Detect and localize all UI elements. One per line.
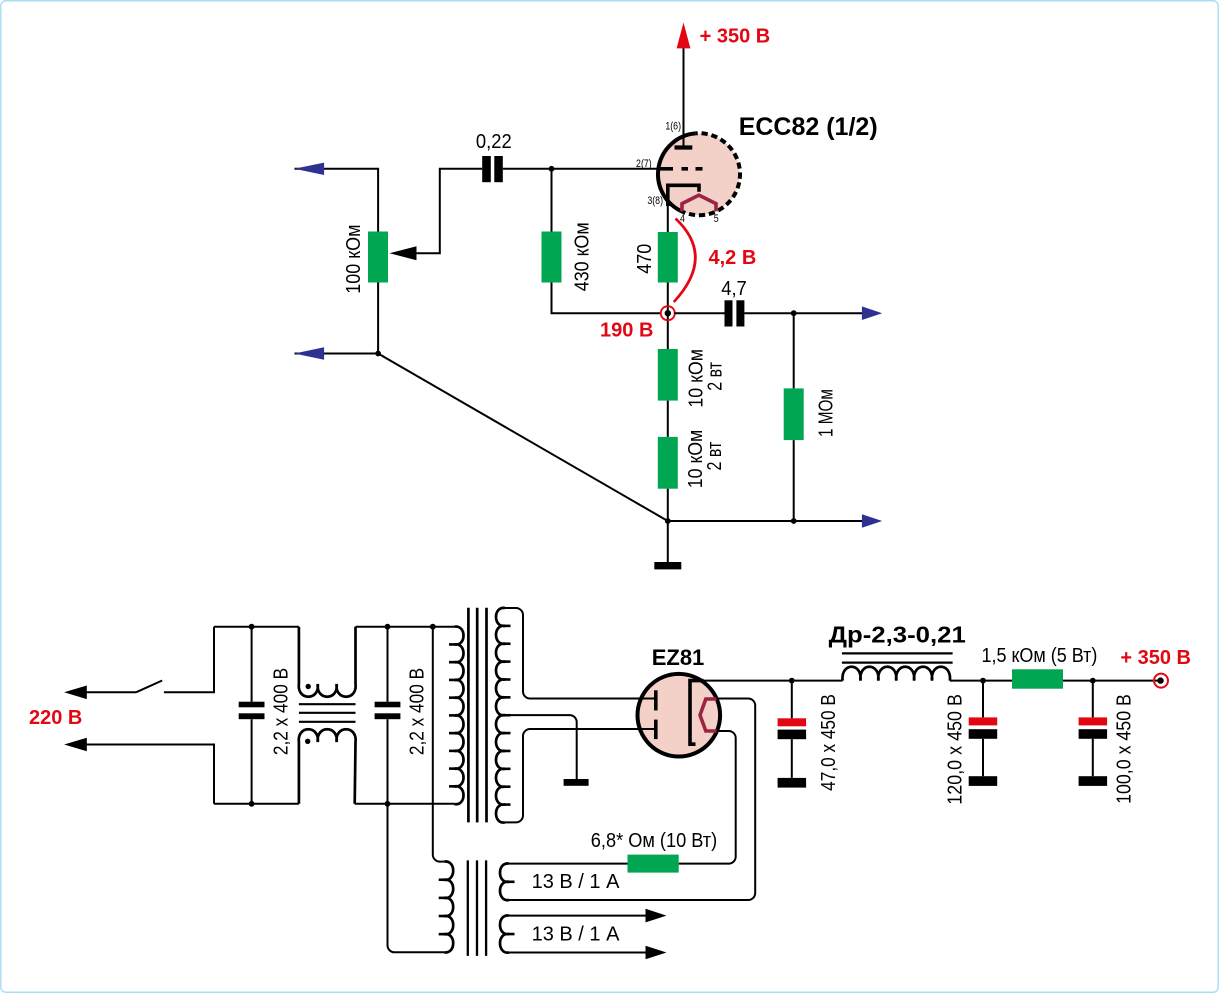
arrow sec2 top xyxy=(646,909,667,923)
node junction C4 top xyxy=(385,624,391,630)
ground symbol C7 xyxy=(1079,776,1108,786)
capacitor C6 120,0x450V xyxy=(969,717,998,738)
wire R4 to R5 xyxy=(667,401,669,437)
capacitor C4 2,2x400V xyxy=(375,702,401,720)
wire pot bottom to node xyxy=(295,283,379,354)
node junction C6 xyxy=(980,678,986,684)
wire C6 xyxy=(982,681,984,718)
wire grid to C1 xyxy=(503,168,658,170)
input arrow top left xyxy=(294,163,324,175)
capacitor C2 4,7 xyxy=(725,300,745,326)
potentiometer R1 100k xyxy=(368,232,388,283)
wire node to R6 xyxy=(793,313,795,388)
svg-text:120,0 x 450 В: 120,0 x 450 В xyxy=(944,694,966,805)
wire heater pin bottom xyxy=(717,731,736,864)
wire R7 to terminal xyxy=(1063,680,1160,682)
wire cathode to choke L2 xyxy=(690,680,843,682)
node junction grid/R2 xyxy=(549,166,555,172)
wire C6 to ground xyxy=(982,739,984,776)
wire C4 top xyxy=(387,627,389,702)
wire cathode to R3 xyxy=(667,204,669,232)
wire T1 sec top to EZ81 plate1 xyxy=(505,608,654,699)
tube U2 EZ81 envelope xyxy=(638,674,721,757)
output arrow bottom xyxy=(862,514,882,528)
transformer T2 secondary winding 1 xyxy=(500,863,509,900)
core L1 xyxy=(299,704,356,722)
ground symbol (center tap) xyxy=(564,779,589,786)
T1 primary cusp ticks xyxy=(449,644,456,786)
terminal +350V xyxy=(1154,674,1168,688)
resistor R2 430k xyxy=(542,232,562,283)
svg-text:13 В / 1 А: 13 В / 1 А xyxy=(532,871,620,893)
svg-text:+ 350 В: + 350 В xyxy=(700,26,771,48)
wire R8 to heater xyxy=(679,863,729,865)
wire node 190V to R4 xyxy=(667,313,669,349)
wire T2 sec2 top xyxy=(509,915,646,917)
svg-text:4,7: 4,7 xyxy=(721,279,747,301)
mains arrow top xyxy=(64,686,87,700)
filter choke L1 winding bottom xyxy=(299,729,356,804)
node junction C4 bottom xyxy=(385,801,391,807)
wire C5 xyxy=(791,681,793,719)
wire R3 to node 190V xyxy=(667,283,669,314)
node junction pot bottom xyxy=(375,351,381,357)
svg-text:4,2 В: 4,2 В xyxy=(708,247,756,269)
svg-text:1(6): 1(6) xyxy=(665,121,681,133)
wire node to C2 xyxy=(674,312,724,314)
wire to ground xyxy=(667,521,669,562)
wire R6 to bottom rail xyxy=(793,440,795,521)
T1 secondary cusp ticks xyxy=(504,626,511,805)
tube U1 ECC82 envelope xyxy=(658,133,740,215)
wire T2 sec1 bottom to heater xyxy=(509,899,749,901)
wire C3 top xyxy=(251,627,253,702)
phase dot L1 top xyxy=(306,684,311,689)
svg-text:2 вт: 2 вт xyxy=(703,442,725,471)
wire R5 to bottom rail xyxy=(667,489,669,521)
svg-text:1 МОм: 1 МОм xyxy=(815,389,837,437)
core T1 xyxy=(468,608,486,823)
node junction C5 xyxy=(789,678,795,684)
wire node to R2 top xyxy=(551,169,553,232)
svg-text:190 В: 190 В xyxy=(600,319,653,341)
resistor R3 470 xyxy=(658,232,678,283)
capacitor C5 47,0x450V xyxy=(778,718,807,739)
node junction C2/R6 xyxy=(791,310,797,316)
capacitor C7 100,0x450V xyxy=(1079,717,1108,738)
wire C5 to ground xyxy=(791,739,793,778)
grid U1 (dashed) xyxy=(658,167,703,171)
node junction C7 xyxy=(1090,678,1096,684)
wire T1 center tap to ground xyxy=(506,715,577,779)
svg-text:2,2 x 400 В: 2,2 x 400 В xyxy=(269,668,291,755)
ground symbol (top circuit) xyxy=(654,562,681,569)
output arrow top xyxy=(862,306,882,320)
transformer T1 secondary winding xyxy=(496,608,505,823)
svg-text:100 кОм: 100 кОм xyxy=(343,224,365,293)
node junction T1 primary top xyxy=(430,624,436,630)
wire L2 to R7 xyxy=(950,680,1012,682)
wire bottom rail right xyxy=(355,803,455,805)
cathode U2 xyxy=(690,681,704,745)
wire mains top to switch xyxy=(86,691,136,693)
svg-text:0,22: 0,22 xyxy=(476,131,512,153)
node junction rail/R6 xyxy=(791,518,797,524)
wire C1 to pot wiper xyxy=(417,169,483,253)
wire C4 bottom / feed to T2 xyxy=(388,719,445,952)
node 190V marker xyxy=(661,306,675,320)
anode plate 1 U2 xyxy=(654,690,658,710)
wire mains bottom xyxy=(86,745,214,804)
svg-text:1,5 кОм (5 Вт): 1,5 кОм (5 Вт) xyxy=(981,645,1097,667)
wire T2 sec1 top to R8 xyxy=(509,863,628,865)
svg-text:470: 470 xyxy=(634,244,656,274)
resistor R7 1,5k 5W xyxy=(1012,669,1063,688)
wire C3 bottom xyxy=(251,719,253,804)
anode plate 2 U2 xyxy=(654,720,658,740)
wire C7 to ground xyxy=(1092,739,1094,776)
svg-text:47,0 x 450 В: 47,0 x 450 В xyxy=(817,694,840,791)
wire T2 sec2 bottom xyxy=(509,952,646,954)
wire pot top to input xyxy=(295,169,379,232)
resistor R8 6,8 Ohm 10W xyxy=(628,855,679,873)
svg-text:2 вт: 2 вт xyxy=(704,362,726,391)
filter choke L1 winding top xyxy=(299,627,356,697)
pointer arc 4,2V xyxy=(674,219,696,303)
svg-text:430 кОм: 430 кОм xyxy=(572,222,594,291)
cathode U1 xyxy=(668,185,699,206)
T2 sec2 cusp tick xyxy=(508,933,515,936)
resistor R6 1M xyxy=(784,388,804,440)
svg-text:Др-2,3-0,21: Др-2,3-0,21 xyxy=(829,623,966,648)
core T2 xyxy=(468,860,486,956)
capacitor C1 0,22 xyxy=(482,156,503,182)
node junction C3 top xyxy=(249,624,255,630)
phase dot L1 bottom xyxy=(305,739,310,744)
svg-text:6,8* Ом (10 Вт): 6,8* Ом (10 Вт) xyxy=(591,830,717,852)
T2 sec1 cusp tick xyxy=(508,880,515,883)
resistor R4 10k 2W xyxy=(658,349,678,401)
svg-text:2,2 x 400 В: 2,2 x 400 В xyxy=(405,668,427,755)
wire feed T2 primary top xyxy=(433,627,444,862)
wire heater pin top xyxy=(717,699,755,901)
input arrow bottom left xyxy=(294,347,324,359)
svg-text:EZ81: EZ81 xyxy=(652,645,705,670)
mains arrow bottom xyxy=(64,738,87,752)
svg-text:100,0 x 450 В: 100,0 x 450 В xyxy=(1114,694,1136,804)
resistor R5 10k 2W xyxy=(658,437,678,489)
wire switch to box xyxy=(164,627,214,693)
svg-text:13 В / 1 А: 13 В / 1 А xyxy=(532,924,620,946)
transformer T1 primary winding xyxy=(455,627,464,805)
heater U2 xyxy=(700,699,717,731)
wire C7 xyxy=(1092,681,1094,718)
T2 primary cusp ticks xyxy=(439,880,446,934)
capacitor C3 2,2x400V xyxy=(239,702,265,720)
arrow sec2 bottom xyxy=(646,946,667,960)
ground symbol C6 xyxy=(969,776,998,786)
power +350V arrow xyxy=(677,23,691,49)
switch S1 blade xyxy=(136,681,162,693)
core L2 xyxy=(842,653,953,662)
svg-text:ECC82 (1/2): ECC82 (1/2) xyxy=(739,113,878,141)
svg-text:220 В: 220 В xyxy=(29,707,82,729)
wire T1 sec bottom to EZ81 plate2 xyxy=(505,729,654,822)
wire bottom rail left xyxy=(214,803,299,805)
transformer T2 primary winding xyxy=(444,861,453,952)
ground symbol C5 xyxy=(778,778,807,788)
wire diagonal ground return xyxy=(378,354,668,522)
svg-text:3(8): 3(8) xyxy=(647,195,663,207)
wire B+ supply to anode V1 xyxy=(683,46,685,148)
wire bottom rail xyxy=(668,520,863,522)
wire top rail right xyxy=(356,626,455,628)
node junction rail/R5 xyxy=(665,518,671,524)
wiper arrow R1 xyxy=(390,246,417,260)
wire C2 to output xyxy=(744,312,862,314)
transformer T2 secondary winding 2 xyxy=(500,915,509,952)
node junction C3 bottom xyxy=(249,801,255,807)
filter choke L2 winding xyxy=(842,667,950,681)
anode plate U1 xyxy=(675,145,693,149)
wire top rail left xyxy=(214,626,299,628)
svg-text:+ 350 В: + 350 В xyxy=(1120,647,1191,669)
heater U1 xyxy=(682,195,716,211)
wire R2 bottom to node 190V xyxy=(552,283,662,314)
svg-text:5: 5 xyxy=(714,213,719,225)
